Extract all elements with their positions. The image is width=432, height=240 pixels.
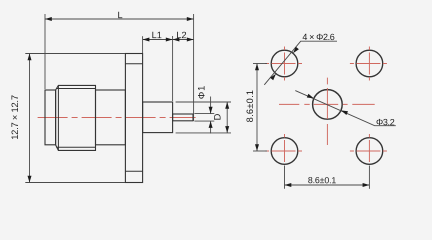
crosshair v top-right xyxy=(368,47,370,81)
dimension 8.6 horizontal ext right xyxy=(368,166,370,189)
leader 4xPhi2.6 line xyxy=(264,41,337,85)
leader Phi3.2 arrow lower xyxy=(341,110,348,115)
dimension 12.7 extension line bottom xyxy=(25,182,125,184)
dimension L1 extension line right xyxy=(172,36,174,101)
dimension 8.6 horizontal arrow right xyxy=(363,183,370,187)
crosshair h bottom-left xyxy=(265,150,302,152)
svg-text:Φ1: Φ1 xyxy=(196,85,206,99)
dimension 8.6 vertical ext bottom xyxy=(253,150,267,152)
svg-text:D: D xyxy=(212,113,222,120)
dimension 8.6 horizontal ext left xyxy=(284,166,286,189)
dimension 12.7 extension line top xyxy=(25,53,125,55)
crosshair h bottom-right xyxy=(350,150,387,152)
center hole centerline h xyxy=(279,103,375,105)
dimension 8.6 vertical arrow bottom xyxy=(255,144,259,151)
leader 4xPhi2.6 arrow lower xyxy=(270,74,276,81)
leader 4xPhi2.6 arrow upper xyxy=(293,47,299,54)
connector nose step xyxy=(45,90,56,145)
dimension L1 arrow right xyxy=(166,38,173,42)
crosshair v bottom-left xyxy=(284,134,286,164)
crosshair v bottom-right xyxy=(368,134,370,164)
dimension Phi1 line upper xyxy=(210,97,212,114)
dimension 12.7 arrow top xyxy=(28,54,32,61)
dimension Phi1 extension line bottom xyxy=(194,120,214,122)
svg-text:L2: L2 xyxy=(176,30,186,40)
dimension D extension line bottom xyxy=(176,132,231,134)
svg-text:4 × Φ2.6: 4 × Φ2.6 xyxy=(302,32,335,42)
dimension Phi1 arrow lower xyxy=(209,121,213,128)
hex body face line xyxy=(57,85,59,150)
leader Phi3.2 line xyxy=(295,91,396,126)
dimension 8.6 horizontal line xyxy=(285,184,370,186)
flange upper chamfer line xyxy=(125,63,142,65)
dimension 8.6 vertical ext top xyxy=(253,63,267,65)
hole top-left xyxy=(271,50,298,77)
flange lower chamfer line xyxy=(125,170,142,172)
dimension 8.6 vertical line xyxy=(256,64,258,152)
dimension L extension line left xyxy=(44,14,46,89)
dimension 12.7 arrow bottom xyxy=(28,176,32,183)
dimension L extension line right xyxy=(193,14,195,121)
dimension L1-L2 line xyxy=(143,39,194,41)
hole bottom-right xyxy=(356,138,383,165)
hole bottom-left xyxy=(271,138,298,165)
svg-text:12.7 × 12.7: 12.7 × 12.7 xyxy=(10,95,20,140)
crosshair h top-right xyxy=(350,63,387,65)
dimension 8.6 horizontal arrow left xyxy=(285,183,292,187)
dimension D arrow bottom xyxy=(225,126,229,133)
contact pin xyxy=(173,114,193,121)
flange plate xyxy=(125,54,142,183)
dimension L2 arrow left xyxy=(173,38,180,42)
dimension Phi1 extension line top xyxy=(194,113,214,115)
rear cylinder xyxy=(143,102,173,133)
hole center (Phi3.2) xyxy=(313,90,343,120)
svg-text:8.6±0.1: 8.6±0.1 xyxy=(308,175,337,185)
dimension Phi1 line lower xyxy=(210,121,212,133)
crosshair h top-left xyxy=(265,63,302,65)
dimension D arrow top xyxy=(225,102,229,109)
leader Phi3.2 arrow upper xyxy=(307,94,314,99)
dimension L arrow right xyxy=(187,17,194,21)
dimension L line xyxy=(45,18,194,20)
center hole centerline v xyxy=(326,78,328,145)
dimension D line xyxy=(226,102,228,133)
svg-text:8.6±0.1: 8.6±0.1 xyxy=(245,90,255,123)
dimension L1 arrow left xyxy=(143,38,150,42)
centerline (side view axis) xyxy=(38,117,196,119)
hex body upper flat line xyxy=(56,88,95,90)
dimension L arrow left xyxy=(45,17,52,21)
svg-text:L1: L1 xyxy=(152,30,162,40)
mid body section xyxy=(96,90,126,145)
dimension 12.7 line xyxy=(29,54,31,183)
svg-text:L: L xyxy=(117,10,122,20)
hex body lower flat line xyxy=(56,146,95,148)
dimension D extension line top xyxy=(176,101,231,103)
dimension L2 arrow right xyxy=(187,38,194,42)
hex body outline xyxy=(56,85,96,150)
crosshair v top-left xyxy=(284,47,286,81)
dimension 8.6 vertical arrow top xyxy=(255,64,259,71)
dimension Phi1 arrow upper xyxy=(209,107,213,114)
dimension L1 extension line left xyxy=(142,36,144,53)
svg-text:Φ3.2: Φ3.2 xyxy=(376,117,395,127)
hole top-right xyxy=(356,50,383,77)
